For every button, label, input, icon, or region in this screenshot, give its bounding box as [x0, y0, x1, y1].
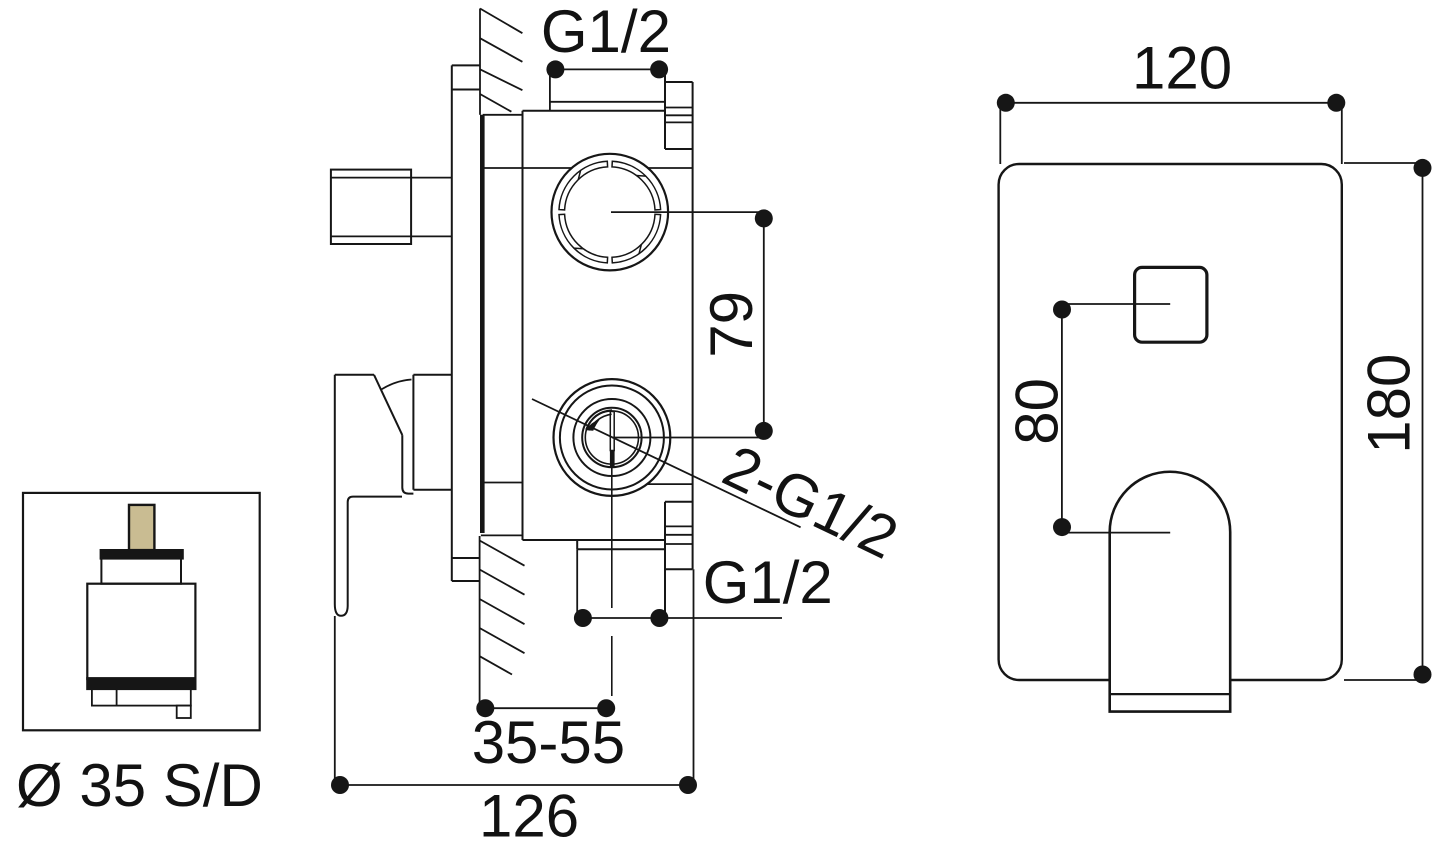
svg-text:80: 80 — [1004, 378, 1071, 445]
svg-text:79: 79 — [698, 291, 765, 358]
svg-text:Ø 35 S/D: Ø 35 S/D — [16, 752, 263, 819]
svg-text:G1/2: G1/2 — [541, 0, 671, 65]
svg-text:120: 120 — [1132, 35, 1232, 102]
svg-text:180: 180 — [1356, 354, 1423, 454]
svg-text:126: 126 — [479, 783, 579, 849]
svg-text:35-55: 35-55 — [472, 709, 625, 776]
svg-text:G1/2: G1/2 — [703, 549, 833, 616]
